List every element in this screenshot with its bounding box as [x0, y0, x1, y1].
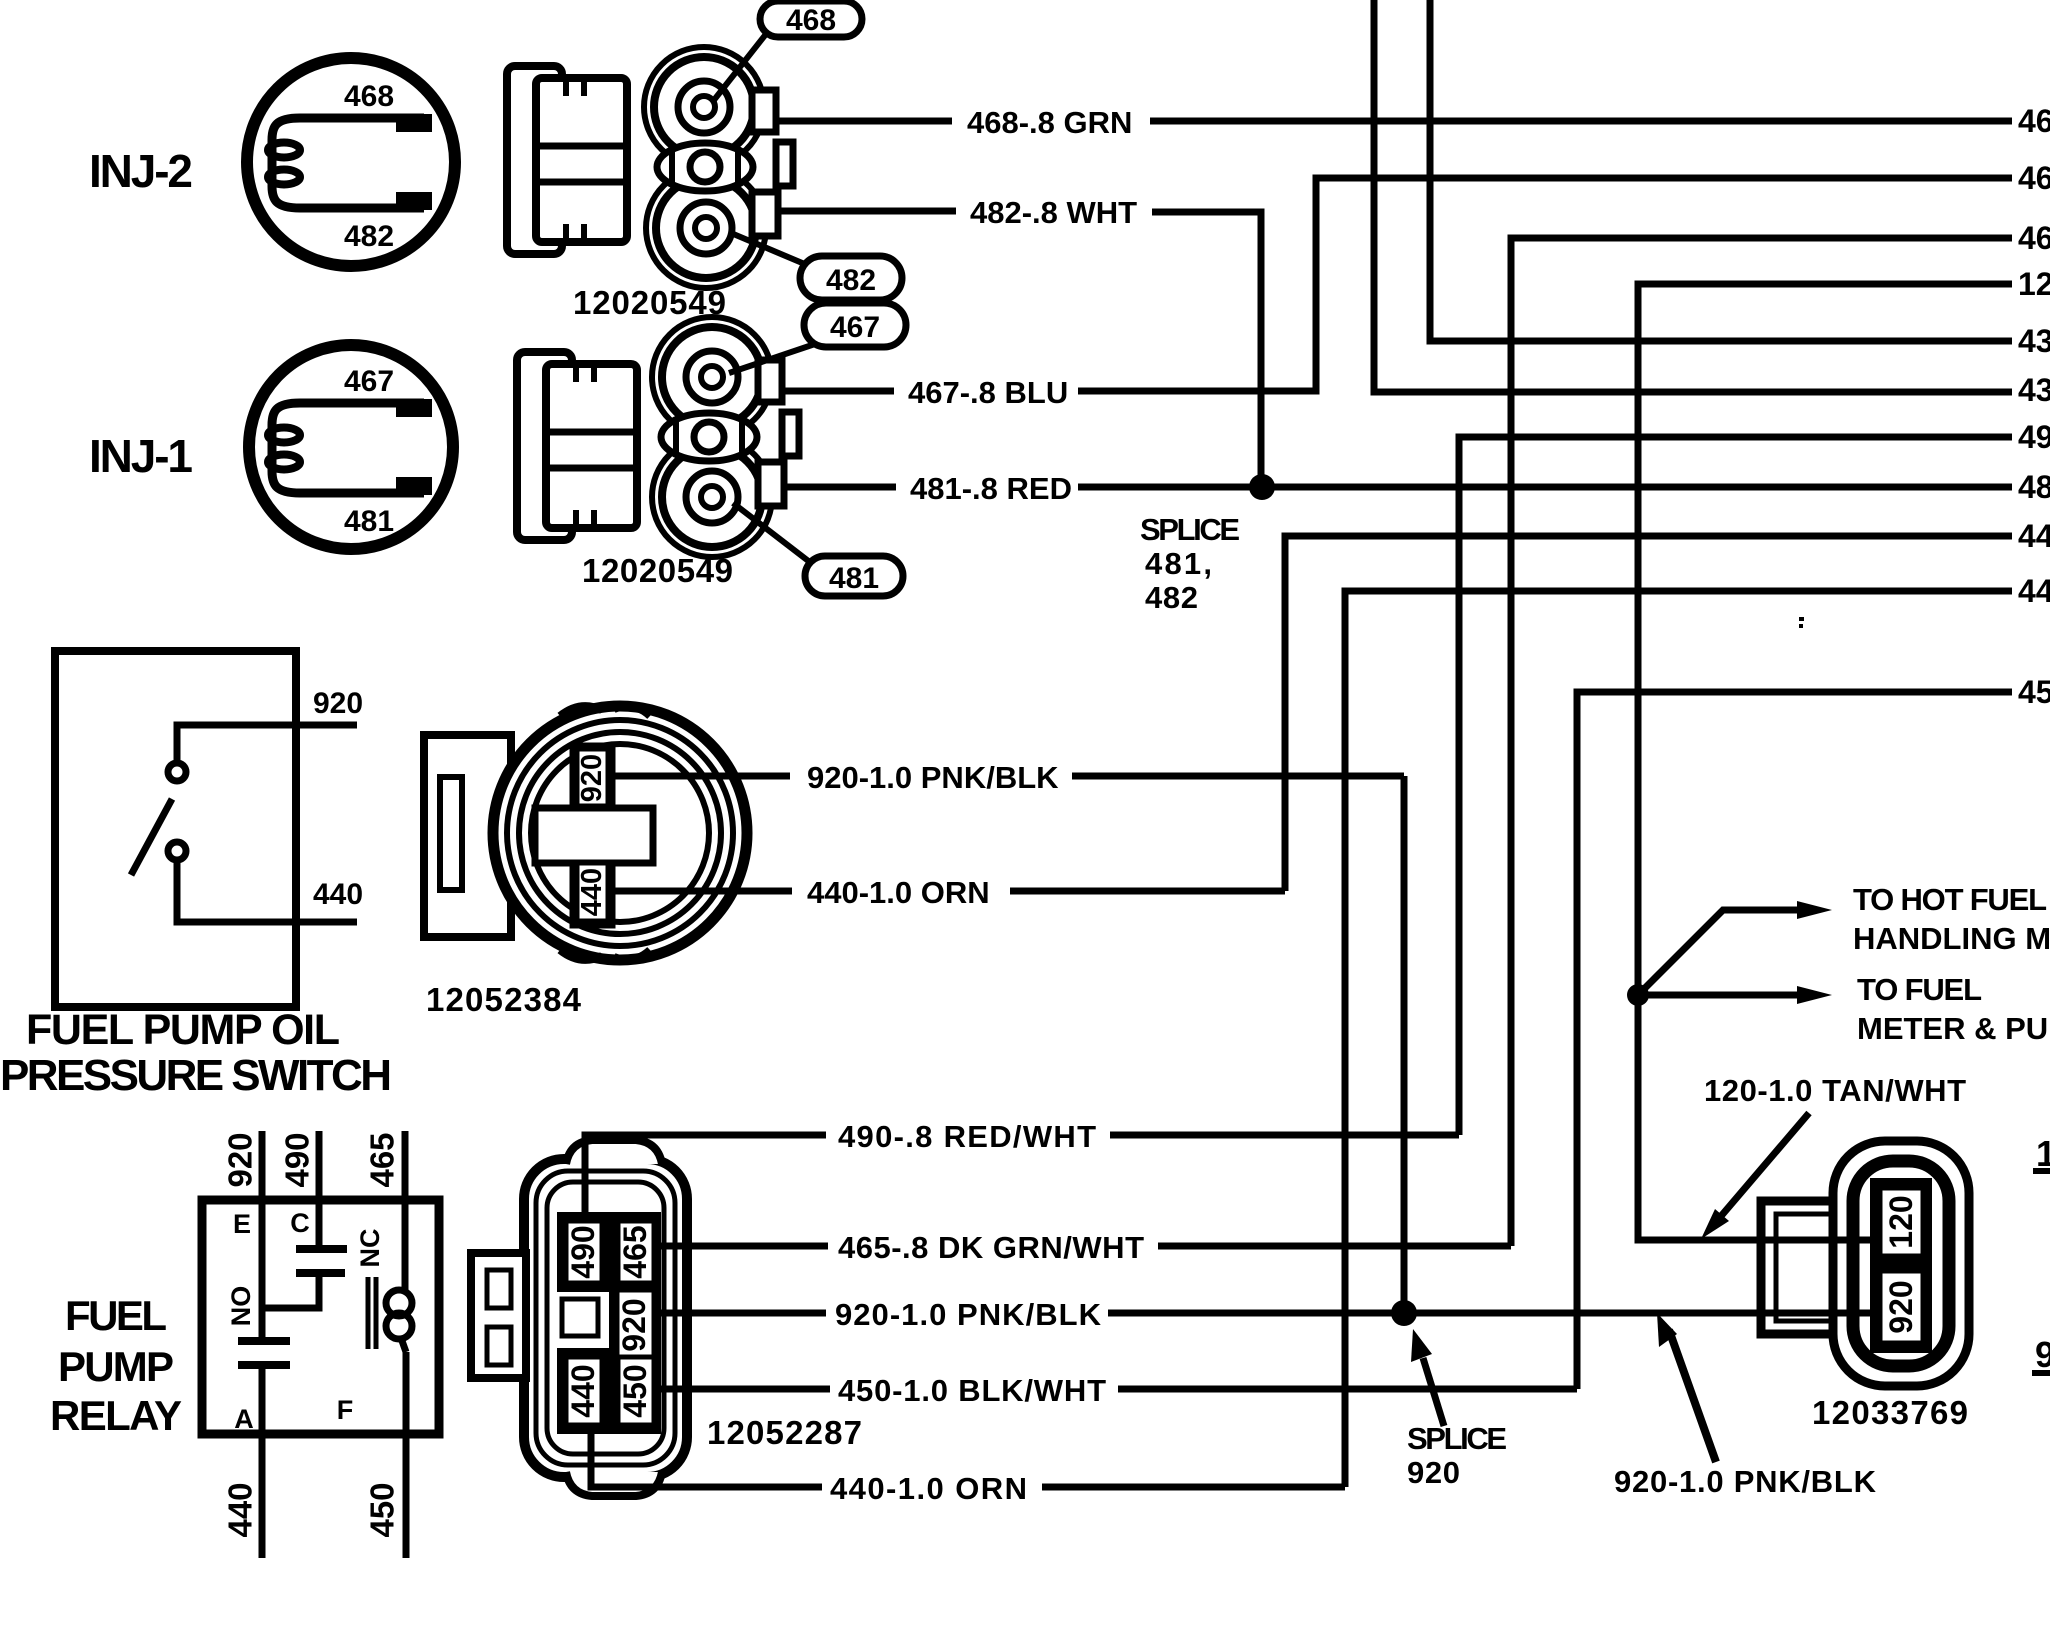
relay NO contact bars: [226, 1286, 290, 1365]
svg-text:12052287: 12052287: [707, 1414, 862, 1451]
svg-text:12020549: 12020549: [582, 552, 733, 589]
svg-text:920-1.0 PNK/BLK: 920-1.0 PNK/BLK: [807, 760, 1059, 795]
svg-text:481: 481: [829, 562, 879, 595]
svg-text:A: A: [234, 1404, 254, 1434]
svg-text:490: 490: [279, 1132, 316, 1187]
splice 920 junction dot: [1391, 1300, 1417, 1326]
svg-text:450: 450: [2018, 674, 2050, 710]
wire from top edge to 43x line (x=1430): [1430, 0, 2012, 341]
svg-text:NC: NC: [355, 1229, 385, 1268]
splice 481,482 junction dot: [1249, 474, 1275, 500]
svg-text:468: 468: [2018, 103, 2050, 139]
wire 467-.8 BLU with label: [784, 178, 2012, 410]
svg-text:468: 468: [344, 80, 394, 113]
svg-text:481: 481: [344, 505, 394, 538]
fuel pump oil pressure switch box: [55, 651, 296, 1007]
svg-text:PRESSURE SWITCH: PRESSURE SWITCH: [0, 1051, 392, 1100]
injector INJ-1 connector face circle: [249, 345, 453, 549]
right edge cut label 440 (lower): [2018, 573, 2050, 609]
svg-text:440: 440: [2018, 573, 2050, 609]
svg-text:INJ-1: INJ-1: [89, 430, 193, 482]
svg-text:440-1.0 ORN: 440-1.0 ORN: [807, 875, 990, 910]
svg-text:468: 468: [786, 4, 836, 37]
wire 120 riser from right edge down to connector 12033769: [1638, 284, 2012, 1240]
svg-text:E: E: [233, 1209, 251, 1239]
svg-text:440: 440: [576, 868, 608, 916]
svg-text:467: 467: [830, 311, 880, 344]
node junction on 120 wire: [1627, 984, 1649, 1006]
injector INJ-2 label: [89, 145, 193, 197]
svg-text:920: 920: [222, 1132, 259, 1187]
svg-text:FUEL PUMP OIL: FUEL PUMP OIL: [26, 1006, 340, 1054]
label splice 920 with arrow: [1407, 1329, 1507, 1490]
svg-text:NO: NO: [226, 1286, 256, 1327]
switch blade: [131, 799, 172, 875]
callout oval 468: [714, 1, 862, 100]
svg-text:PUMP: PUMP: [58, 1343, 174, 1390]
svg-text:440: 440: [222, 1482, 259, 1537]
relay coil and pin F wire (465/450): [337, 1131, 412, 1558]
wire 450-1.0 BLK/WHT with label: [657, 1373, 1577, 1408]
svg-text:439: 439: [2018, 323, 2050, 359]
svg-text:482: 482: [344, 220, 394, 253]
connector 12020549 (top, for INJ-2): [507, 47, 793, 321]
wire from top edge to 43x line (x=1374): [1374, 0, 2012, 392]
switch contact (bottom, 440): [168, 842, 363, 922]
svg-text:440: 440: [565, 1364, 601, 1417]
svg-text:465: 465: [617, 1225, 653, 1278]
svg-text:TO FUEL: TO FUEL: [1857, 972, 1982, 1007]
wire 465 riser to right edge: [1511, 238, 2012, 1246]
wire 440 riser (relay branch) to right edge: [1345, 591, 2012, 1487]
wire 920-1.0 PNK/BLK (relay) with label: [657, 1297, 1879, 1332]
relay pin C wire (490) with NC contact: [262, 1131, 385, 1308]
svg-text:RELAY: RELAY: [50, 1392, 182, 1439]
svg-text:490-.8 RED/WHT: 490-.8 RED/WHT: [838, 1119, 1096, 1154]
connector 12052384 (round): [424, 706, 747, 1018]
connector 12052287: [471, 1140, 862, 1496]
right edge cut label 468: [2018, 103, 2050, 139]
connector 12020549 (bottom, for INJ-1): [517, 317, 799, 589]
switch contact (top, 920): [168, 687, 363, 781]
wire 482-.8 WHT with label: [778, 195, 1261, 487]
injector INJ-1 label: [89, 430, 193, 482]
svg-text:920-1.0 PNK/BLK: 920-1.0 PNK/BLK: [835, 1297, 1102, 1332]
label 920-1.0 PNK/BLK (splice feed) with arrow: [1614, 1313, 1877, 1499]
svg-text:465: 465: [2018, 220, 2050, 256]
right edge cut label 467: [2018, 160, 2050, 196]
fuel pump relay box: [202, 1200, 439, 1434]
svg-text:490: 490: [565, 1225, 601, 1278]
svg-text:468-.8 GRN: 468-.8 GRN: [967, 105, 1132, 140]
callout oval 467: [729, 303, 906, 373]
stray ink speck: [1799, 617, 1804, 628]
svg-text:467: 467: [2018, 160, 2050, 196]
right edge cut label 920 (underlined): [2032, 1334, 2050, 1375]
svg-text:920: 920: [1883, 1280, 1919, 1333]
svg-text:F: F: [337, 1395, 354, 1425]
svg-text:920: 920: [2035, 1334, 2050, 1375]
svg-text:490: 490: [2018, 419, 2050, 455]
svg-text:440-1.0 ORN: 440-1.0 ORN: [830, 1471, 1027, 1506]
svg-text:120-1.0 TAN/WHT: 120-1.0 TAN/WHT: [1704, 1073, 1966, 1108]
wire 490 riser to right edge: [1459, 437, 2012, 1135]
wire 440 riser (round connector branch) to right edge: [1285, 536, 2012, 891]
svg-text:465-.8 DK GRN/WHT: 465-.8 DK GRN/WHT: [838, 1230, 1144, 1265]
fuel pump relay caption: [50, 1292, 182, 1439]
svg-text:METER & PUMP: METER & PUMP: [1857, 1011, 2050, 1046]
svg-text:HANDLING MOD: HANDLING MOD: [1853, 921, 2050, 956]
arrow to fuel meter and pump: [1638, 972, 2050, 1046]
svg-text:920: 920: [576, 754, 608, 802]
wire 920 drop from round connector to splice 920: [1401, 776, 1408, 1313]
svg-text:482-.8 WHT: 482-.8 WHT: [970, 195, 1137, 230]
svg-text:482: 482: [826, 264, 876, 297]
svg-text:920-1.0 PNK/BLK: 920-1.0 PNK/BLK: [1614, 1464, 1877, 1499]
right edge cut label 120: [2018, 266, 2050, 302]
connector 12033769: [1761, 1141, 1969, 1431]
svg-text:439: 439: [2018, 372, 2050, 408]
svg-text:450: 450: [364, 1482, 401, 1537]
svg-text:120: 120: [2018, 266, 2050, 302]
label 120-1.0 TAN/WHT with arrow: [1701, 1073, 1966, 1239]
arrow to hot fuel handling module: [1638, 882, 2050, 995]
svg-text:TO HOT FUEL: TO HOT FUEL: [1853, 882, 2047, 917]
wire 490-.8 RED/WHT with label: [585, 1119, 1459, 1219]
wire 481-.8 RED with label: [784, 471, 2012, 506]
relay pin A wire (440): [222, 1365, 263, 1558]
svg-text:INJ-2: INJ-2: [89, 145, 193, 197]
svg-text:467-.8 BLU: 467-.8 BLU: [908, 375, 1068, 410]
right edge cut label 43x (lower): [2018, 372, 2050, 408]
wire 920 into connector 12033769 (over body): [1745, 1310, 1878, 1317]
svg-text:C: C: [290, 1208, 310, 1238]
splice 481,482 label: [1140, 512, 1240, 615]
svg-text:120: 120: [2036, 1133, 2050, 1174]
svg-text:920: 920: [616, 1298, 652, 1351]
svg-text:440: 440: [2018, 518, 2050, 554]
wire 920-1.0 PNK/BLK (round connector) with label: [613, 760, 1404, 795]
right edge cut label 450: [2018, 674, 2050, 710]
callout oval 482: [731, 233, 902, 300]
wire 120 into connector 12033769 (over body): [1745, 1237, 1878, 1244]
injector INJ-2 connector face circle: [247, 58, 455, 266]
svg-text:12052384: 12052384: [426, 981, 582, 1018]
svg-text:481: 481: [2018, 469, 2050, 505]
svg-text:481-.8 RED: 481-.8 RED: [910, 471, 1072, 506]
svg-text:920: 920: [1407, 1455, 1460, 1490]
svg-text:450: 450: [617, 1364, 653, 1417]
svg-text:SPLICE: SPLICE: [1407, 1421, 1507, 1456]
svg-text:FUEL: FUEL: [65, 1292, 167, 1339]
right edge cut label 120 (underlined): [2033, 1133, 2050, 1174]
pressure switch caption: [0, 1006, 392, 1100]
wire 465-.8 DK GRN/WHT with label: [657, 1230, 1511, 1265]
right edge cut label 465: [2018, 220, 2050, 256]
svg-text:482: 482: [1145, 580, 1198, 615]
right edge cut label 481: [2018, 469, 2050, 505]
right edge cut label 440 (upper): [2018, 518, 2050, 554]
svg-text:920: 920: [313, 687, 363, 720]
svg-text:465: 465: [364, 1132, 401, 1187]
wire 440-1.0 ORN (relay) with label: [591, 1430, 1345, 1506]
wire 450 riser to right edge: [1577, 692, 2012, 1389]
svg-text:120: 120: [1883, 1195, 1919, 1248]
right edge cut label 490: [2018, 419, 2050, 455]
relay pin E wire (920): [222, 1131, 263, 1340]
svg-text:467: 467: [344, 365, 394, 398]
svg-text:SPLICE: SPLICE: [1140, 512, 1240, 547]
wire 468-.8 GRN with label: [776, 105, 2012, 140]
callout oval 481: [733, 503, 903, 596]
svg-text:12033769: 12033769: [1812, 1394, 1968, 1431]
wire 440-1.0 ORN (round connector) with label: [613, 875, 1285, 910]
svg-text:450-1.0 BLK/WHT: 450-1.0 BLK/WHT: [838, 1373, 1106, 1408]
svg-text:440: 440: [313, 878, 363, 911]
right edge cut label 43x (upper): [2018, 323, 2050, 359]
